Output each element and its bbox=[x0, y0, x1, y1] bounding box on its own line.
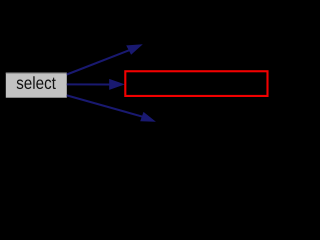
wire edge select to upper node bbox=[67, 44, 143, 74]
arrowhead lower bbox=[140, 112, 156, 122]
arrowhead upper bbox=[126, 44, 143, 55]
label select (text outlines) bbox=[17, 76, 56, 89]
wire edge select to lower node bbox=[67, 95, 156, 121]
node truncated (red bordered box, empty label) bbox=[125, 71, 267, 96]
node select (current node box, grey filled) bbox=[6, 73, 67, 98]
arrowhead middle bbox=[109, 79, 125, 90]
wire edge select to red truncated node (middle) bbox=[67, 79, 125, 90]
